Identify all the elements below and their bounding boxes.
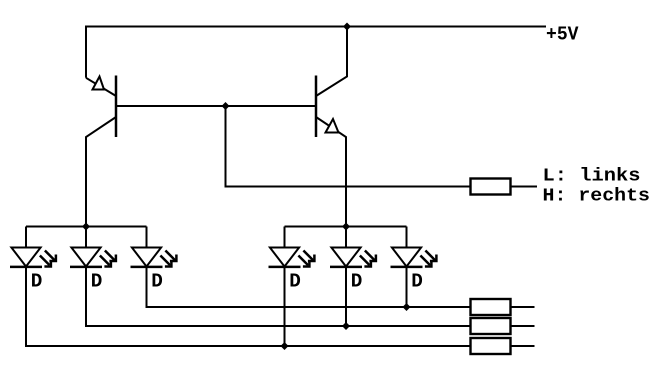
svg-text:L: links: L: links: [543, 166, 641, 187]
svg-text:+5V: +5V: [546, 23, 579, 45]
svg-text:H: rechts: H: rechts: [543, 186, 651, 207]
